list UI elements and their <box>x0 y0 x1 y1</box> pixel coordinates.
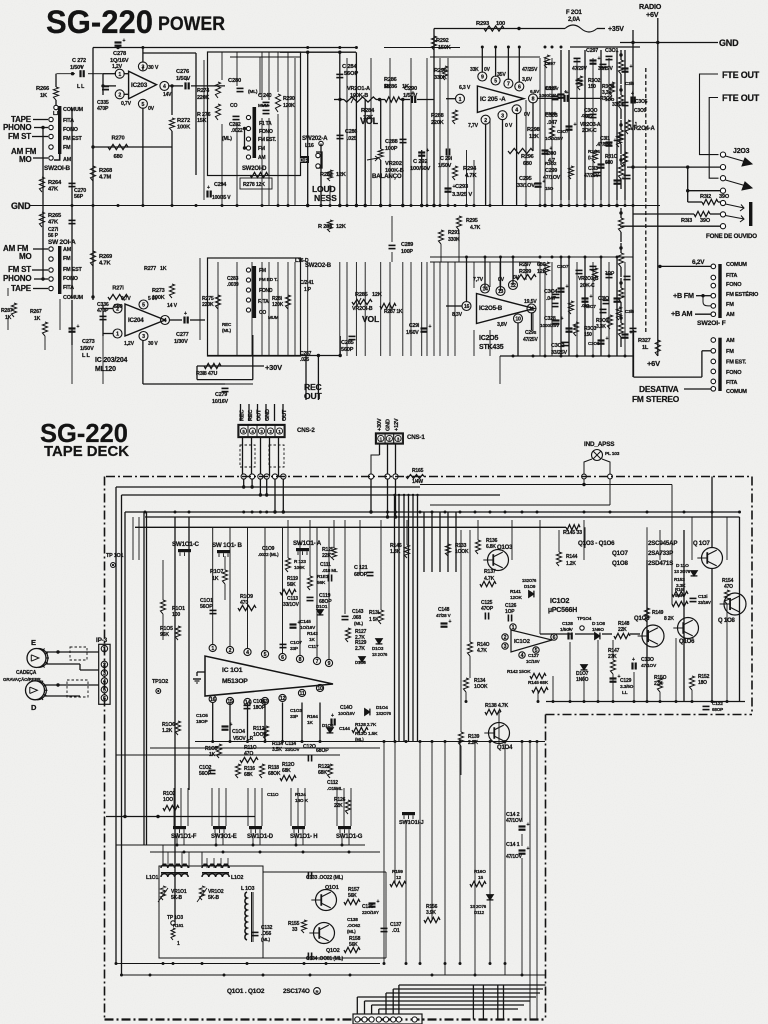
svg-text:AM: AM <box>726 312 735 318</box>
svg-text:FM ST: FM ST <box>8 132 31 141</box>
svg-text:18O K: 18O K <box>295 798 309 804</box>
svg-text:FM STEREO: FM STEREO <box>632 394 680 404</box>
svg-text:4: 4 <box>103 679 106 685</box>
svg-text:+: + <box>377 899 380 905</box>
svg-text:6: 6 <box>518 85 521 91</box>
svg-text:IND_APSS: IND_APSS <box>584 441 615 448</box>
svg-text:SW1O1- H: SW1O1- H <box>290 834 317 840</box>
svg-text:.025: .025 <box>300 357 309 363</box>
svg-text:SW2OI-D: SW2OI-D <box>242 166 267 172</box>
svg-text:+: + <box>574 122 577 128</box>
svg-text:C12O: C12O <box>303 744 316 750</box>
svg-text:TP1O2: TP1O2 <box>152 679 168 685</box>
svg-text:+: + <box>77 324 80 330</box>
svg-text:6: 6 <box>553 635 556 641</box>
svg-text:3: 3 <box>504 644 507 650</box>
svg-text:R266: R266 <box>36 86 50 92</box>
svg-text:FM: FM <box>726 349 734 355</box>
svg-text:PL 103: PL 103 <box>605 451 620 457</box>
svg-text:1S 2O76: 1S 2O76 <box>470 904 487 909</box>
svg-text:R124: R124 <box>295 792 306 798</box>
svg-text:E: E <box>31 638 36 647</box>
svg-text:STK435: STK435 <box>479 344 504 351</box>
svg-text:FM: FM <box>63 145 71 151</box>
svg-text:3.3/5O: 3.3/5O <box>620 684 634 690</box>
svg-text:FM EST.: FM EST. <box>726 360 747 366</box>
svg-text:R291: R291 <box>448 230 460 236</box>
svg-text:L.L: L.L <box>53 111 60 117</box>
svg-text:D1O9: D1O9 <box>524 584 536 589</box>
svg-text:FOND: FOND <box>259 288 273 294</box>
svg-text:.O1: .O1 <box>392 928 400 934</box>
svg-text:R265: R265 <box>48 213 62 219</box>
svg-text:C297: C297 <box>586 48 598 54</box>
svg-text:L 1O3: L 1O3 <box>241 886 255 892</box>
svg-text:4.7K: 4.7K <box>99 261 111 267</box>
svg-text:R141: R141 <box>510 589 521 595</box>
svg-text:+: + <box>630 64 633 70</box>
svg-text:1/50V: 1/50V <box>406 330 419 336</box>
svg-text:1,2V: 1,2V <box>124 341 135 347</box>
svg-text:FITA: FITA <box>726 273 737 279</box>
svg-text:39O: 39O <box>700 218 711 224</box>
svg-text:C3l5: C3l5 <box>625 309 635 314</box>
svg-text:C138: C138 <box>347 917 358 923</box>
svg-text:.025: .025 <box>347 136 357 142</box>
svg-text:5K-B: 5K-B <box>171 895 182 901</box>
svg-text:FONO: FONO <box>726 370 742 376</box>
svg-text:R27i: R27i <box>112 286 124 292</box>
svg-text:8,3V: 8,3V <box>452 312 463 318</box>
svg-text:+: + <box>453 184 456 190</box>
svg-text:5: 5 <box>142 102 145 108</box>
svg-text:1: 1 <box>512 625 515 631</box>
svg-text:+: + <box>606 336 609 342</box>
svg-text:1.5K: 1.5K <box>368 731 378 737</box>
svg-text:220K: 220K <box>431 120 444 126</box>
svg-text:L16: L16 <box>305 143 314 149</box>
svg-text:IC2O5-B: IC2O5-B <box>479 305 503 312</box>
svg-text:+: + <box>123 38 126 44</box>
svg-text:R269: R269 <box>99 254 113 260</box>
svg-text:VR2O4-A: VR2O4-A <box>630 126 655 132</box>
svg-text:C 29i: C 29i <box>440 156 453 162</box>
svg-text:FONO: FONO <box>63 127 78 133</box>
svg-text:C297: C297 <box>545 61 556 66</box>
svg-text:1.2K: 1.2K <box>162 728 173 734</box>
svg-text:68K: 68K <box>318 770 327 776</box>
svg-text:C1O5: C1O5 <box>196 713 208 719</box>
svg-text:C294: C294 <box>214 182 226 188</box>
svg-text:R161: R161 <box>173 923 184 928</box>
svg-text:470P: 470P <box>97 106 109 112</box>
svg-text:1/30V: 1/30V <box>174 339 188 345</box>
svg-text:MUM: MUM <box>268 315 279 320</box>
svg-text:150: 150 <box>588 84 596 90</box>
svg-text:R164: R164 <box>307 714 318 720</box>
svg-text:AM: AM <box>63 157 72 163</box>
svg-text:SG-220: SG-220 <box>46 4 153 40</box>
svg-text:18OP: 18OP <box>253 705 266 711</box>
svg-text:R3l8 47U: R3l8 47U <box>196 371 217 377</box>
svg-text:18OP: 18OP <box>196 719 208 725</box>
svg-text:33/25V: 33/25V <box>551 350 567 356</box>
svg-text:0V: 0V <box>498 277 505 283</box>
svg-text:100K: 100K <box>152 295 165 301</box>
svg-text:6,2V: 6,2V <box>692 259 705 266</box>
svg-text:.0022 (ML): .0022 (ML) <box>258 552 279 557</box>
svg-text:CNS-1: CNS-1 <box>407 434 425 441</box>
svg-text:22K: 22K <box>334 803 343 809</box>
svg-text:680: 680 <box>523 161 532 167</box>
svg-text:VR2OI-B: VR2OI-B <box>352 306 373 312</box>
svg-text:12K: 12K <box>336 224 346 230</box>
svg-text:100K: 100K <box>177 125 191 131</box>
svg-text:COMUM: COMUM <box>63 295 84 301</box>
svg-text:1N6O: 1N6O <box>576 677 589 683</box>
svg-text:IC 203/204: IC 203/204 <box>95 357 128 364</box>
svg-text:1S2O76: 1S2O76 <box>376 711 392 716</box>
svg-text:4: 4 <box>521 653 524 659</box>
svg-text:16: 16 <box>464 304 470 310</box>
svg-text:FM: FM <box>258 146 265 152</box>
svg-text:R327: R327 <box>638 338 651 344</box>
svg-text:.022: .022 <box>581 113 590 118</box>
svg-text:D1O5: D1O5 <box>355 660 366 665</box>
svg-text:C3O7: C3O7 <box>557 264 569 269</box>
svg-text:4: 4 <box>515 107 518 113</box>
svg-text:1S 2O76: 1S 2O76 <box>372 652 388 657</box>
svg-text:3.9K: 3.9K <box>426 910 436 916</box>
svg-text:1OO: 1OO <box>163 797 173 803</box>
svg-text:C145: C145 <box>300 619 311 625</box>
svg-text:FTE OUT: FTE OUT <box>722 93 760 103</box>
svg-text:8 2K: 8 2K <box>664 616 674 622</box>
svg-text:+B AM: +B AM <box>671 309 693 318</box>
svg-text:IC2O5: IC2O5 <box>479 335 499 342</box>
svg-text:47O: 47O <box>244 751 253 757</box>
svg-text:Q1O8: Q1O8 <box>612 560 628 567</box>
svg-text:SW2O2-B: SW2O2-B <box>305 263 332 269</box>
svg-text:+30V: +30V <box>265 363 282 372</box>
svg-text:R290: R290 <box>283 96 295 102</box>
svg-text:9: 9 <box>328 661 331 667</box>
svg-text:7,7V: 7,7V <box>473 277 484 283</box>
svg-text:C288: C288 <box>385 139 398 145</box>
svg-text:GND: GND <box>11 201 31 211</box>
svg-text:R137: R137 <box>484 569 496 575</box>
svg-text:3,6V: 3,6V <box>522 77 533 83</box>
svg-text:R273: R273 <box>152 288 165 294</box>
svg-text:AM: AM <box>726 338 735 344</box>
svg-text:R294: R294 <box>463 166 477 172</box>
svg-text:R287 1K: R287 1K <box>384 309 403 315</box>
svg-text:47/28 V: 47/28 V <box>436 613 452 618</box>
svg-text:TP 1O1: TP 1O1 <box>106 553 123 559</box>
svg-text:3: 3 <box>142 334 145 340</box>
svg-text:FM EST: FM EST <box>63 136 82 142</box>
svg-text:2.2K: 2.2K <box>468 740 478 746</box>
svg-text:9.6K: 9.6K <box>675 593 685 598</box>
svg-text:10O/16V: 10O/16V <box>338 711 356 716</box>
svg-text:L1O2: L1O2 <box>231 875 243 881</box>
svg-text:C3O5: C3O5 <box>545 111 557 116</box>
svg-text:39O: 39O <box>719 194 730 200</box>
svg-text:+: + <box>184 311 187 317</box>
svg-text:R142 15OK: R142 15OK <box>507 669 531 675</box>
svg-text:7,7V: 7,7V <box>468 123 479 129</box>
svg-text:R165: R165 <box>412 468 424 474</box>
svg-text:1K: 1K <box>160 266 167 272</box>
svg-text:C 121: C 121 <box>354 565 368 571</box>
svg-text:C3O7: C3O7 <box>557 129 569 134</box>
svg-text:56P: 56P <box>74 194 84 200</box>
svg-text:33P: 33P <box>290 714 299 720</box>
svg-text:1: 1 <box>459 97 462 103</box>
svg-text:4.7K: 4.7K <box>477 648 487 654</box>
svg-text:C277: C277 <box>176 332 189 338</box>
svg-text:5: 5 <box>264 652 267 658</box>
svg-text:L1O1: L1O1 <box>146 875 158 881</box>
svg-text:100: 100 <box>172 612 180 618</box>
svg-text:FM ST: FM ST <box>8 265 31 274</box>
svg-text:2SC945AP: 2SC945AP <box>648 540 677 547</box>
svg-text:CADEÇA: CADEÇA <box>16 670 37 676</box>
svg-text:22O/16Y: 22O/16Y <box>362 910 379 915</box>
svg-text:Q1O2: Q1O2 <box>326 948 340 954</box>
svg-text:REC: REC <box>248 410 254 421</box>
svg-text:+: + <box>632 657 635 663</box>
svg-text:MO: MO <box>19 252 32 261</box>
svg-text:FONO: FONO <box>259 129 273 135</box>
svg-text:3.3/25 V: 3.3/25 V <box>452 192 472 198</box>
svg-text:96K: 96K <box>160 632 169 638</box>
svg-text:47/29V: 47/29V <box>545 86 559 91</box>
svg-text:68OP: 68OP <box>354 572 368 578</box>
svg-text:33/16V: 33/16V <box>698 600 711 605</box>
svg-text:47/25V: 47/25V <box>522 67 538 73</box>
svg-text:7: 7 <box>507 82 510 88</box>
svg-text:AM: AM <box>63 247 72 253</box>
svg-text:12: 12 <box>396 875 401 881</box>
svg-text:R16I: R16I <box>675 587 684 592</box>
svg-text:47OP: 47OP <box>481 606 494 612</box>
svg-text:5: 5 <box>142 303 145 309</box>
svg-text:R274: R274 <box>197 88 209 94</box>
svg-text:680: 680 <box>113 154 122 160</box>
svg-text:0V: 0V <box>524 112 531 118</box>
svg-text:R296: R296 <box>521 154 534 160</box>
svg-text:Q1O7: Q1O7 <box>612 550 628 557</box>
svg-text:+: + <box>622 294 625 300</box>
svg-text:2: 2 <box>504 635 507 641</box>
svg-text:47K: 47K <box>48 220 59 226</box>
svg-text:12OK: 12OK <box>510 595 522 601</box>
svg-text:FM: FM <box>63 256 71 262</box>
svg-text:+: + <box>606 160 609 166</box>
svg-text:1 5K: 1 5K <box>369 617 379 623</box>
svg-text:Q1O6: Q1O6 <box>679 639 695 645</box>
svg-text:C279: C279 <box>215 392 227 398</box>
svg-text:10/16V: 10/16V <box>212 399 228 405</box>
svg-text:R3i3: R3i3 <box>681 218 692 224</box>
svg-text:MO: MO <box>19 155 32 164</box>
svg-text:0 V: 0 V <box>505 123 513 129</box>
svg-text:0V: 0V <box>484 67 491 73</box>
svg-text:µPC566H: µPC566H <box>548 607 577 614</box>
svg-text:+: + <box>568 627 571 633</box>
svg-text:D: D <box>31 703 37 712</box>
svg-text:C280: C280 <box>228 78 241 84</box>
svg-text:VOL: VOL <box>360 116 379 126</box>
svg-text:11: 11 <box>529 307 534 313</box>
svg-text:POWER: POWER <box>158 14 225 35</box>
svg-text:4: 4 <box>163 84 166 90</box>
svg-text:FONO: FONO <box>726 282 742 288</box>
svg-text:4: 4 <box>164 318 167 324</box>
svg-text:VR202: VR202 <box>385 161 402 167</box>
svg-text:+30V: +30V <box>377 418 383 431</box>
svg-text:R293: R293 <box>476 21 490 27</box>
svg-text:C3l5: C3l5 <box>625 81 635 86</box>
svg-text:0,7V: 0,7V <box>121 296 131 302</box>
svg-text:OUT: OUT <box>304 391 322 401</box>
svg-text:1.8K: 1.8K <box>390 549 401 555</box>
svg-text:56K: 56K <box>287 582 296 588</box>
svg-text:56K: 56K <box>317 580 326 586</box>
svg-text:35V: 35V <box>497 72 506 78</box>
svg-text:+6V: +6V <box>647 359 660 368</box>
svg-text:COMUM: COMUM <box>726 389 747 395</box>
svg-text:56K: 56K <box>348 893 357 899</box>
svg-text:F1 TA: F1 TA <box>259 121 272 127</box>
svg-text:COMUM: COMUM <box>726 262 747 268</box>
svg-text:TAPE: TAPE <box>11 284 32 293</box>
svg-text:150K: 150K <box>438 45 451 51</box>
svg-text:+35V: +35V <box>608 26 624 33</box>
svg-text:R149: R149 <box>652 610 664 616</box>
svg-text:6,3 V: 6,3 V <box>459 85 471 91</box>
svg-text:VOL: VOL <box>362 314 379 324</box>
svg-text:1OOK: 1OOK <box>474 684 488 690</box>
svg-text:Q 1O7: Q 1O7 <box>693 541 711 547</box>
svg-text:8: 8 <box>299 657 302 663</box>
svg-text:.022: .022 <box>581 303 590 308</box>
svg-text:SW1O1- A: SW1O1- A <box>293 540 322 547</box>
svg-text:FM EST.: FM EST. <box>258 137 277 143</box>
svg-text:R297: R297 <box>519 262 531 268</box>
svg-text:PHONO: PHONO <box>3 274 31 283</box>
svg-text:47/25V: 47/25V <box>523 337 539 343</box>
svg-text:+B FM: +B FM <box>673 291 694 300</box>
svg-text:C129: C129 <box>620 678 632 684</box>
svg-text:F 2O1: F 2O1 <box>566 10 583 16</box>
svg-text:F. TA: F. TA <box>258 299 269 305</box>
svg-text:+6V: +6V <box>646 10 659 19</box>
svg-text:FITA: FITA <box>726 380 737 386</box>
svg-text:+: + <box>80 65 83 71</box>
svg-text:1OOK: 1OOK <box>455 549 469 555</box>
svg-text:TP1O4: TP1O4 <box>577 616 592 622</box>
svg-text:C144: C144 <box>339 726 350 732</box>
svg-text:68OK: 68OK <box>268 771 281 777</box>
svg-text:+: + <box>566 90 569 96</box>
svg-text:R138 4.7K: R138 4.7K <box>485 703 508 709</box>
svg-text:D 1O8: D 1O8 <box>592 621 605 627</box>
svg-text:47/1OV: 47/1OV <box>641 663 657 669</box>
svg-text:R287: R287 <box>1 308 13 314</box>
svg-text:15K: 15K <box>197 118 207 124</box>
svg-text:R153: R153 <box>674 577 685 583</box>
svg-text:C29s: C29s <box>525 330 537 336</box>
svg-text:L L: L L <box>77 84 85 90</box>
svg-text:TAPE DECK: TAPE DECK <box>44 443 129 460</box>
svg-text:10: 10 <box>317 686 323 692</box>
svg-text:FONE DE OUVIDO: FONE DE OUVIDO <box>706 233 757 240</box>
svg-text:2OK-C: 2OK-C <box>582 128 597 134</box>
svg-text:OUT: OUT <box>282 409 288 421</box>
svg-text:BALANÇO: BALANÇO <box>372 173 402 180</box>
svg-text:C278: C278 <box>113 51 127 57</box>
svg-text:+: + <box>331 713 334 719</box>
svg-text:M513OP: M513OP <box>222 678 248 685</box>
svg-text:R295: R295 <box>466 218 478 224</box>
svg-text:18O: 18O <box>698 680 707 686</box>
svg-text:33: 33 <box>292 927 298 933</box>
svg-text:1OO: 1OO <box>605 97 615 102</box>
svg-text:3,8V: 3,8V <box>497 322 508 328</box>
svg-text:R128 2.7K: R128 2.7K <box>355 722 377 728</box>
svg-text:C289: C289 <box>401 242 413 248</box>
svg-text:+: + <box>614 138 617 144</box>
svg-text:FM ESTÉRIO: FM ESTÉRIO <box>726 290 759 298</box>
svg-text:14V: 14V <box>163 92 172 98</box>
svg-text:R3O2: R3O2 <box>545 161 557 166</box>
svg-text:R288: R288 <box>431 113 444 119</box>
svg-text:2: 2 <box>116 307 119 313</box>
svg-text:2SA733P: 2SA733P <box>648 550 673 557</box>
svg-text:2.7K: 2.7K <box>355 646 365 652</box>
svg-text:4.7K: 4.7K <box>470 225 481 231</box>
svg-text:1: 1 <box>116 332 119 338</box>
svg-text:2: 2 <box>118 92 121 98</box>
svg-text:1N6O: 1N6O <box>592 627 604 633</box>
svg-text:2SD471S: 2SD471S <box>648 560 673 567</box>
svg-text:2SC174O: 2SC174O <box>283 988 310 995</box>
svg-text:PHONO: PHONO <box>3 123 31 132</box>
svg-text:FTE OUT: FTE OUT <box>722 70 760 80</box>
svg-text:(ML): (ML) <box>354 621 364 626</box>
svg-text:NESS: NESS <box>314 193 337 203</box>
svg-text:1S 2O76: 1S 2O76 <box>674 569 691 574</box>
svg-text:LL: LL <box>622 690 628 696</box>
svg-text:SW 1O1- B: SW 1O1- B <box>212 542 243 549</box>
svg-text:SW1O1-E: SW1O1-E <box>211 834 237 840</box>
svg-text:SW2OI-B: SW2OI-B <box>44 165 71 172</box>
svg-text:1: 1 <box>211 646 214 652</box>
svg-text:IC 205 -A: IC 205 -A <box>480 96 506 103</box>
svg-text:68K: 68K <box>282 768 291 774</box>
svg-text:68OP: 68OP <box>316 748 329 754</box>
svg-text:15: 15 <box>478 875 483 881</box>
svg-text:30 V: 30 V <box>148 65 159 71</box>
svg-text:6.8K: 6.8K <box>486 544 496 550</box>
svg-text:Q1O1 . Q1O2: Q1O1 . Q1O2 <box>227 988 265 995</box>
svg-text:30 V: 30 V <box>148 341 158 347</box>
svg-text:1.2K: 1.2K <box>566 561 576 567</box>
svg-text:C1O4: C1O4 <box>232 729 245 735</box>
svg-text:6: 6 <box>281 655 284 661</box>
